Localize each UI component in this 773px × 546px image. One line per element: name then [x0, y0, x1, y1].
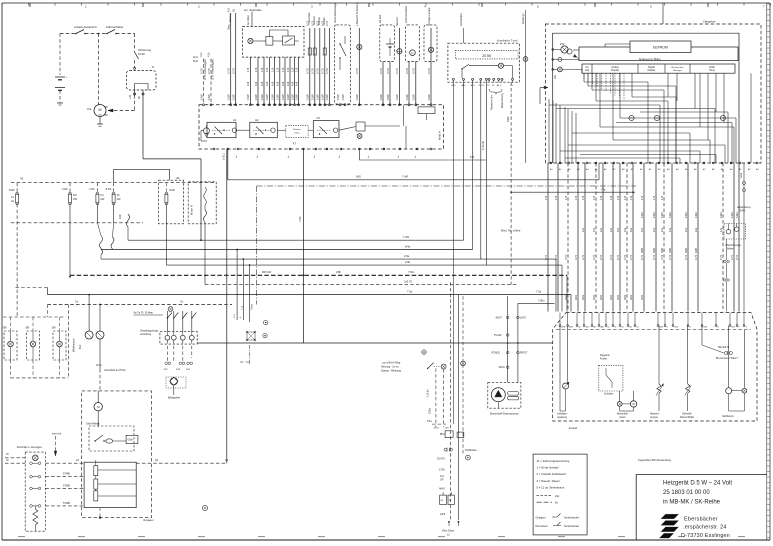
pin heater 16: [701, 325, 703, 327]
wire timer relay output 1: [249, 57, 251, 105]
svg-text:0.75 Fahrzeugbel: 0.75 Fahrzeugbel: [211, 59, 215, 80]
diamond flasher: [166, 377, 186, 388]
svg-text:2.5b: 2.5b: [405, 260, 411, 264]
squiggle below F3: [96, 204, 98, 223]
svg-text:Vorw.Glühanlage: Vorw.Glühanlage: [333, 2, 337, 23]
svg-text:1.5W: 1.5W: [306, 94, 310, 101]
svg-text:Startup - Blinkung: Startup - Blinkung: [381, 370, 401, 373]
svg-text:Anl.: Anl.: [87, 107, 92, 111]
svg-text:M: M: [633, 402, 635, 406]
lamp cross mid: [461, 361, 466, 366]
small fuse box and lamp in RB: [356, 122, 365, 131]
EEPROM box: [630, 41, 691, 53]
pin heater 20: [743, 325, 745, 327]
dashed box Abfahrt with battery: [380, 25, 395, 62]
pin timer 21: [730, 162, 732, 164]
wire timer pin 20 to heater: [738, 163, 740, 312]
svg-text:0.75: 0.75: [325, 20, 329, 26]
svg-text:12s: 12s: [668, 227, 672, 232]
wire timer pin 13 to heater: [655, 163, 657, 312]
svg-text:1.5W: 1.5W: [405, 94, 409, 101]
svg-text:M: M: [99, 108, 102, 112]
svg-text:0.75 Fahrzeugbel: 0.75 Fahrzeugbel: [203, 59, 207, 80]
svg-text:1.5l: 1.5l: [265, 67, 269, 72]
svg-text:2W: 2W: [73, 197, 77, 201]
svg-text:.erspächerstr. 24: .erspächerstr. 24: [683, 525, 727, 531]
fuse F1: [16, 183, 18, 194]
svg-text:50: 50: [105, 113, 109, 117]
svg-text:0.75: 0.75: [581, 254, 585, 260]
svg-text:Überhitzungs-: Überhitzungs-: [725, 243, 741, 247]
svg-text:24v: 24v: [555, 494, 560, 498]
bus 2.5a: [101, 258, 556, 260]
dashed info box inside RB: [286, 126, 308, 138]
svg-text:1.5l: 1.5l: [294, 67, 298, 72]
svg-text:2.5a: 2.5a: [404, 254, 410, 258]
svg-text:Prüflückel: Prüflückel: [465, 448, 477, 452]
pin kombiuhr 10: [512, 78, 514, 80]
pin kombiuhr 6: [488, 78, 490, 80]
svg-text:Fühler: Fühler: [600, 357, 607, 360]
wire timer internal rail y86: [588, 85, 676, 87]
svg-text:Restzeichen: Restzeichen: [671, 66, 684, 69]
svg-text:Kl.30: Kl.30: [138, 52, 145, 56]
ground below motor: [97, 123, 103, 125]
svg-text:1.5l: 1.5l: [616, 195, 620, 200]
wire fuse group 4: [324, 28, 326, 105]
svg-text:0.75: 0.75: [616, 254, 620, 260]
svg-text:43/1: 43/1: [640, 294, 644, 300]
wire timer pin 1 to heater: [547, 163, 549, 312]
svg-text:Flammfühler: Flammfühler: [680, 415, 695, 419]
svg-text:Ab fuel: Ab fuel: [378, 14, 382, 23]
svg-text:57/9B: 57/9B: [63, 501, 70, 505]
squiggle below F4: [113, 204, 115, 223]
svg-text:12s: 12s: [581, 227, 585, 232]
pin relay box bottom 14: [399, 148, 401, 150]
svg-text:12s: 12s: [629, 227, 633, 232]
svg-text:7.5a: 7.5a: [407, 290, 413, 294]
pin kombiuhr 2: [463, 78, 465, 80]
stub from top border to zeituhr: [662, 3, 664, 24]
svg-text:Heiz Düse: Heiz Düse: [442, 529, 455, 533]
svg-text:4.0l: 4.0l: [270, 81, 274, 86]
svg-text:24B: 24B: [336, 271, 341, 274]
svg-text:1.5W: 1.5W: [311, 94, 315, 101]
lamp box L1: [4, 331, 17, 360]
connector glyphs below: [165, 362, 168, 365]
wires below steckkupplung: [166, 340, 168, 361]
fuse F2: [69, 183, 71, 194]
dash-dot shield line: [257, 185, 636, 187]
wire fuse group 2: [314, 28, 316, 105]
svg-text:(24V): (24V): [739, 209, 745, 213]
svg-text:1 = Gerät Vorwahl: 1 = Gerät Vorwahl: [537, 466, 559, 470]
eberspaecher logo: [661, 514, 679, 519]
bus 2.5b: [166, 264, 562, 266]
wire timer relay output 7: [284, 57, 286, 105]
svg-text:Anschluß an PV11: Anschluß an PV11: [104, 368, 126, 372]
wire K1 to motor with arrow: [134, 95, 136, 111]
svg-text:Serienstecker: Serienstecker: [564, 516, 579, 519]
svg-text:A3: A3: [316, 116, 320, 120]
svg-text:Außentemp.: Außentemp.: [737, 205, 751, 209]
svg-text:PSF27: PSF27: [520, 352, 528, 355]
switch Fahrtschalter: [107, 30, 115, 34]
legend box: [533, 454, 587, 535]
relay A2: [250, 122, 277, 137]
wire 7.5bn branch: [518, 302, 555, 304]
svg-text:GF: GF: [440, 478, 444, 481]
TRB contact block: [283, 36, 295, 45]
svg-text:1.5l: 1.5l: [544, 195, 548, 200]
svg-text:0.75l: 0.75l: [321, 68, 325, 74]
svg-text:8 DF: 8 DF: [169, 188, 175, 192]
wire pair zum Anlasser: [230, 13, 232, 105]
bus 7.5bn bold dashed: [70, 274, 567, 276]
pin timer 17: [694, 162, 696, 164]
fuse symbols on group: [308, 48, 311, 55]
svg-text:7.4/9: 7.4/9: [403, 235, 409, 239]
switch Batterie-Hauptschalter: [76, 30, 84, 34]
steckkupplung connector box: [160, 332, 197, 345]
svg-text:2x0.75: 2x0.75: [404, 280, 412, 284]
svg-text:1.5W: 1.5W: [265, 94, 269, 101]
svg-text:0.75l: 0.75l: [316, 68, 320, 74]
pin timer 1: [550, 162, 552, 164]
wire timer pin 17 to heater: [697, 163, 699, 312]
svg-text:1.5l: 1.5l: [554, 195, 558, 200]
right ruler: [766, 3, 768, 540]
wire kombiuhr pin1 down: [452, 82, 454, 424]
svg-text:1.5l: 1.5l: [260, 67, 264, 72]
inner box right vertical: [743, 54, 745, 120]
wire Kombiuhr down 2: [472, 82, 474, 249]
svg-text:43/07: 43/07: [496, 317, 503, 320]
svg-text:PCM32: PCM32: [492, 352, 501, 355]
svg-text:0.75l: 0.75l: [355, 68, 359, 74]
wire timer internal rail y101: [596, 100, 668, 102]
wire timer internal column 1: [548, 99, 550, 163]
motor M2: [630, 401, 636, 407]
relay boxlet mid: [247, 332, 255, 340]
svg-text:25 1803 01 00 00: 25 1803 01 00 00: [663, 490, 710, 496]
svg-text:142A: 142A: [669, 212, 672, 218]
svg-text:4.0l: 4.0l: [254, 81, 258, 86]
pin heater 14: [672, 325, 674, 327]
svg-text:Fahrtschreiber: Fahrtschreiber: [404, 6, 408, 23]
svg-text:..me a Bl.Kl Abfrg: ..me a Bl.Kl Abfrg: [381, 362, 401, 365]
svg-text:0.75: 0.75: [730, 254, 734, 260]
wire timer internal rail y145: [568, 144, 725, 146]
cluster pins: [30, 462, 33, 465]
pin timer 15: [676, 162, 678, 164]
svg-text:0.75l: 0.75l: [395, 68, 399, 74]
diode symbol left in RB: [204, 128, 210, 134]
svg-text:12s: 12s: [616, 227, 620, 232]
svg-text:0.75l: 0.75l: [405, 68, 409, 74]
pin relay box bottom 4: [258, 148, 260, 150]
svg-text:4.0l: 4.0l: [290, 81, 294, 86]
svg-text:Beleuchtung: Beleuchtung: [500, 93, 504, 108]
svg-text:1.5W: 1.5W: [270, 94, 274, 101]
svg-text:57/9B: 57/9B: [63, 472, 70, 476]
pin heater 19: [736, 325, 738, 327]
pin kombiuhr 7: [493, 78, 495, 80]
svg-text:1.5W: 1.5W: [290, 94, 294, 101]
title block border: [636, 473, 766, 475]
pin heater 8: [612, 325, 614, 327]
bus 7.5a long: [48, 294, 572, 296]
sensor B left: [559, 326, 561, 383]
svg-text:7wss: 7wss: [250, 303, 254, 310]
wire radio 525 from top: [525, 10, 527, 163]
pin kombiuhr 4: [480, 78, 482, 80]
svg-text:12s: 12s: [592, 227, 596, 232]
pin heater 4: [583, 325, 585, 327]
svg-text:0.75: 0.75: [660, 254, 664, 260]
wire K1 down to lower section: [142, 95, 144, 159]
plus circle mark: [422, 350, 426, 354]
svg-text:1.5l: 1.5l: [574, 195, 578, 200]
tall dashed box Vorgluehanlage: [334, 25, 350, 104]
svg-text:Neutral: Neutral: [395, 17, 399, 26]
svg-text:D-73730 Esslingen: D-73730 Esslingen: [681, 533, 730, 539]
svg-text:142A: 142A: [736, 212, 739, 218]
fuse F5 in box42: [165, 183, 167, 194]
svg-text:1.5l b+: 1.5l b+: [425, 389, 429, 397]
gluehrelais box: [89, 426, 134, 451]
pin relay box bottom 9: [326, 148, 328, 150]
pin timer 10: [631, 162, 633, 164]
wire fuse group 1: [309, 28, 311, 105]
svg-text:1.5l: 1.5l: [660, 195, 664, 200]
wire 43b down: [510, 82, 512, 284]
svg-text:24v: 24v: [553, 74, 557, 79]
transistor pair left: [561, 46, 568, 53]
pin timer 19: [712, 162, 714, 164]
svg-text:pumpe: pumpe: [650, 416, 658, 419]
svg-text:Vergaser: Vergaser: [143, 518, 154, 522]
upper link wire: [114, 168, 170, 170]
connector pair below 1: [724, 260, 726, 262]
svg-text:GV: GV: [73, 193, 77, 197]
svg-text:1.5W: 1.5W: [341, 94, 345, 101]
svg-text:fühler: fühler: [727, 247, 734, 251]
svg-text:1.5W: 1.5W: [246, 94, 250, 101]
wire timer internal column 3: [555, 103, 557, 163]
wire Kombiuhr down 3: [485, 82, 487, 265]
bottom ruler ticks: [18, 536, 745, 538]
chain relay boxes: [445, 431, 453, 438]
svg-text:2 = Vorwahl Zeit/Dauerh.: 2 = Vorwahl Zeit/Dauerh.: [537, 472, 568, 476]
wire timer internal rail y151: [560, 150, 700, 152]
pin relay box bottom 10: [340, 148, 342, 150]
right bus risers into module: [555, 259, 557, 311]
wire timer relay output 6: [279, 57, 281, 105]
svg-text:A2: A2: [255, 118, 259, 122]
long wire 343: [197, 342, 553, 344]
svg-text:1.5W: 1.5W: [427, 94, 431, 101]
svg-text:Anzeige Lampe: Anzeige Lampe: [427, 7, 431, 26]
svg-text:12s: 12s: [599, 227, 603, 232]
connector pair below 2: [724, 279, 726, 281]
wire timer pin 14 to heater: [663, 163, 665, 312]
wire with theta symbol: [398, 28, 400, 105]
svg-text:Blinkgeber: Blinkgeber: [168, 396, 180, 400]
chain circled dot: [466, 455, 471, 460]
svg-text:0.75l: 0.75l: [207, 68, 211, 74]
svg-text:43/1: 43/1: [574, 294, 578, 300]
svg-text:43/b: 43/b: [506, 116, 510, 122]
svg-text:4.0l: 4.0l: [286, 81, 290, 86]
svg-text:12s: 12s: [694, 227, 698, 232]
wire timer pin 8 to heater: [612, 163, 614, 312]
svg-text:Kombiuhr 7-pol.: Kombiuhr 7-pol.: [497, 39, 518, 43]
wire timer pin 11 to heater: [632, 163, 634, 312]
svg-text:12s: 12s: [719, 227, 723, 232]
svg-text:30: 30: [105, 105, 109, 109]
pin timer 16: [685, 162, 687, 164]
svg-text:1.5W: 1.5W: [232, 94, 236, 101]
pin relay box bottom 6: [289, 148, 291, 150]
svg-text:142A: 142A: [641, 212, 644, 218]
pin timer 2: [559, 162, 561, 164]
zeituhr internal bus maze: [583, 73, 585, 80]
pin relay box bottom 5: [269, 148, 271, 150]
svg-text:RD KLR: RD KLR: [262, 271, 271, 274]
wire +31 below RB: [227, 149, 229, 180]
pin timer 11: [640, 162, 642, 164]
pin timer 13: [658, 162, 660, 164]
RB right stubs: [403, 105, 405, 126]
circled dot mid: [264, 320, 268, 324]
svg-text:0.75l: 0.75l: [306, 68, 310, 74]
svg-text:43/10: 43/10: [498, 366, 505, 369]
svg-text:An. Zeitrelais: An. Zeitrelais: [244, 8, 262, 12]
pin timer 7: [604, 162, 606, 164]
svg-text:C1: C1: [100, 193, 104, 197]
relay A3: [313, 121, 339, 138]
wire Anlasser Geraet: [430, 28, 432, 105]
wire timer internal column 8: [575, 113, 577, 163]
pin kombiuhr 8: [498, 78, 500, 80]
svg-text:1.5l: 1.5l: [241, 305, 245, 310]
svg-text:1.5W: 1.5W: [294, 94, 298, 101]
Kombiuhr box: [448, 43, 519, 82]
svg-text:Ebersbächer: Ebersbächer: [684, 517, 718, 523]
wire timer internal column 2: [552, 101, 554, 163]
wire fuse group 5: [328, 28, 330, 105]
pin timer 22: [739, 162, 741, 164]
TRB coil: [266, 37, 273, 46]
svg-text:12s: 12s: [623, 227, 627, 232]
connector cluster box: [25, 452, 45, 531]
module top bevel left wires: [555, 312, 557, 330]
chain connector pair: [444, 448, 447, 451]
pin timer 20: [721, 162, 723, 164]
svg-text:124/7: 124/7: [520, 317, 527, 320]
svg-text:4.0l: 4.0l: [265, 81, 269, 86]
svg-text:Fahrtschalter: Fahrtschalter: [106, 25, 124, 29]
chain terminals: [448, 521, 450, 523]
svg-text:43/1: 43/1: [629, 294, 633, 300]
svg-text:24V: 24V: [560, 43, 565, 46]
wire 599 to rail: [598, 163, 600, 180]
svg-text:43/1: 43/1: [592, 294, 596, 300]
svg-text:A50: A50: [356, 175, 361, 179]
svg-text:72a: 72a: [601, 188, 606, 192]
wire timer relay output 9: [294, 57, 296, 105]
wire timer pin 10 to heater: [626, 163, 628, 312]
pin timer 8: [613, 162, 615, 164]
svg-text:0.75l: 0.75l: [325, 68, 329, 74]
svg-text:Trennschütz: Trennschütz: [308, 12, 311, 25]
wires down from cluster: [435, 368, 437, 427]
wire timer internal rail y127: [600, 126, 734, 128]
dashed bus 222.8: [11, 222, 143, 224]
squiggle x128: [127, 214, 130, 227]
pin timer 4: [577, 162, 579, 164]
wire timer pin 3 to heater: [567, 163, 569, 312]
svg-text:6.0l: 6.0l: [470, 155, 475, 159]
svg-text:1.5l: 1.5l: [234, 314, 236, 318]
pin relay box bottom 7: [303, 148, 305, 150]
wire timer pin 7 to heater: [602, 163, 604, 312]
svg-text:0.75l: 0.75l: [386, 68, 390, 74]
svg-text:43/N: 43/N: [569, 327, 574, 329]
inner right wire: [750, 73, 752, 163]
svg-text:zum Anl.: zum Anl.: [52, 433, 62, 436]
horizontal 160 wire: [359, 159, 486, 161]
pin heater 9: [619, 325, 621, 327]
dashed box 42: [159, 180, 184, 224]
svg-text:1.5W: 1.5W: [207, 94, 211, 101]
lamp box L3: [53, 331, 66, 360]
svg-text:Drehzahl u. Anzeigen: Drehzahl u. Anzeigen: [17, 445, 43, 449]
wire Kombiuhr down 2b: [480, 82, 482, 259]
svg-text:verteilung: verteilung: [140, 332, 152, 336]
wire switch row top-left: [60, 33, 75, 35]
pin timer 12: [649, 162, 651, 164]
pin heater 2: [567, 325, 569, 327]
svg-text:41 = Fahrzeugbeleuchtung: 41 = Fahrzeugbeleuchtung: [537, 459, 570, 463]
svg-text:0.75l: 0.75l: [379, 68, 383, 74]
rail 72a: [511, 191, 635, 193]
svg-text:Glühkerze: Glühkerze: [722, 414, 734, 418]
sensor S3 zigzag: [658, 326, 660, 384]
dosierpumpe wire 1: [507, 296, 509, 382]
svg-text:9a 7a F1 10 blau: 9a 7a F1 10 blau: [134, 311, 154, 315]
svg-text:57/9B: 57/9B: [63, 483, 70, 487]
wire timer pin 4 to heater: [577, 163, 579, 312]
svg-text:12s: 12s: [640, 227, 644, 232]
svg-text:43/8: 43/8: [661, 248, 664, 253]
bus horizontals center: [228, 179, 599, 181]
svg-text:Motor H: Motor H: [190, 205, 194, 215]
pin relay box bottom 12: [369, 148, 371, 150]
svg-text:Mind.H: Mind.H: [438, 131, 442, 140]
svg-text:1.5W: 1.5W: [276, 94, 280, 101]
svg-text:1.5l: 1.5l: [564, 195, 568, 200]
svg-text:0.75: 0.75: [574, 254, 578, 260]
svg-text:43/1: 43/1: [609, 294, 613, 300]
svg-text:1.5l: 1.5l: [254, 67, 258, 72]
svg-text:(12): (12): [98, 114, 102, 116]
module bottom pin: [99, 508, 101, 518]
svg-text:1.5W: 1.5W: [316, 94, 320, 101]
svg-text:Analog-prg. Mikro: Analog-prg. Mikro: [639, 57, 662, 61]
